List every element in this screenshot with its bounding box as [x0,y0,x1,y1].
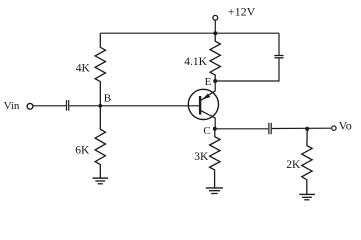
wire: C node to output capacitor [215,128,268,130]
capacitor C3 (output coupling) [268,123,270,134]
+12V terminal [213,15,218,20]
transistor Q1 emitter arrow (PNP) [202,94,210,100]
transistor Q1 circle [188,89,218,119]
node: rail junction dot [213,31,217,35]
wire: E node to bypass capacitor [215,58,279,81]
ground (under 2K) [299,193,315,195]
transistor Q1 collector (to C) [201,111,215,129]
svg-text:E: E [205,76,212,88]
wire: capacitor to base [69,105,200,107]
wire: output capacitor to Vo [272,127,332,129]
svg-text:Vin: Vin [4,100,20,112]
ground (under 3K) [206,187,223,189]
node E junction dot [213,79,217,83]
wire: rail to bypass capacitor [278,33,280,55]
transistor Q1 emitter (to E) [201,81,215,100]
node: output junction dot [305,127,309,131]
transistor Q1 base bar [199,96,201,115]
svg-text:3K: 3K [194,151,209,163]
capacitor C1 (input coupling) [66,100,68,111]
resistor 6K [95,106,105,178]
wire: +12V top rail [100,32,279,34]
resistor 4K [95,33,105,106]
svg-text:C: C [203,125,210,137]
svg-text:Vo: Vo [339,119,352,133]
ground (under 6K) [93,177,109,179]
wire: Vin to capacitor [34,105,67,107]
node C junction dot [213,127,217,131]
svg-text:B: B [104,93,111,105]
svg-text:6K: 6K [75,145,90,157]
terminal Vo [332,126,336,130]
resistor 3K [210,129,220,188]
svg-text:4.1K: 4.1K [184,56,207,68]
node B junction dot [98,104,102,108]
resistor 4.1K [210,33,220,81]
svg-text:4K: 4K [76,63,91,75]
svg-text:2K: 2K [286,159,301,171]
wire: +12V terminal to rail [214,20,216,33]
terminal Vin [27,103,33,109]
svg-text:+12V: +12V [228,4,256,18]
resistor 2K [302,129,312,194]
capacitor C2 (emitter bypass) [274,55,283,57]
